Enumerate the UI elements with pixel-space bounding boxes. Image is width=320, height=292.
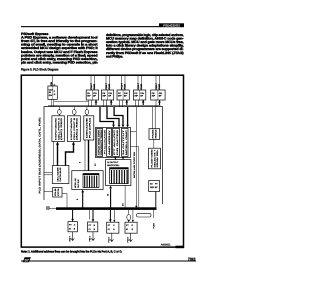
svg-text:MCELLAB PORT EN: MCELLAB PORT EN bbox=[133, 151, 136, 178]
svg-text:PC0-7: PC0-7 bbox=[120, 82, 123, 89]
svg-text:(IMC) REG: (IMC) REG bbox=[60, 117, 63, 140]
box M (global config) bbox=[53, 187, 62, 197]
svg-text:7/93: 7/93 bbox=[188, 257, 197, 262]
svg-text:PD0-7: PD0-7 bbox=[137, 82, 140, 89]
box D (port C pins) bbox=[117, 90, 129, 100]
wires bus to box J bbox=[153, 107, 156, 129]
lines below port boxes with open arrowheads bbox=[71, 232, 132, 242]
CPLD container bbox=[96, 128, 131, 158]
down arrows into CPLD top bbox=[112, 125, 115, 128]
long vertical line from input bus to MCU bus bbox=[135, 107, 137, 209]
wire P bottom to MCU bus bbox=[155, 192, 157, 209]
MCU internal bus (thick) bbox=[56, 207, 157, 210]
svg-text:PIN: PIN bbox=[140, 92, 144, 95]
CPLD AND array (shaded) bbox=[97, 128, 103, 156]
svg-text:PORT: PORT bbox=[153, 222, 156, 228]
box C (port B pins) bbox=[101, 90, 113, 100]
OMC group label bbox=[107, 161, 120, 167]
svg-text:SELECTS +: SELECTS + bbox=[153, 148, 156, 167]
svg-text:DIV: DIV bbox=[49, 94, 53, 97]
svg-text:PC0-7: PC0-7 bbox=[108, 236, 111, 243]
line IMC group bottom to MCU bus (up arrow) bbox=[82, 192, 84, 208]
svg-text:(IMC) REG: (IMC) REG bbox=[76, 117, 79, 140]
tall box T1 (input macrocell A) bbox=[52, 116, 64, 142]
wire M right to bus bbox=[62, 194, 67, 208]
wires from frame top to top boxes bbox=[53, 76, 160, 90]
svg-text:PD0-7: PD0-7 bbox=[126, 236, 129, 243]
svg-text:8 INPUT MACRO: 8 INPUT MACRO bbox=[55, 117, 58, 140]
svg-text:CPLD AND ARR: CPLD AND ARR bbox=[97, 129, 100, 155]
thin line OMC bottom to bus bbox=[124, 186, 126, 209]
svg-text:PAGE: PAGE bbox=[152, 128, 155, 138]
svg-text:PSD4235G2: PSD4235G2 bbox=[163, 23, 180, 27]
top pin labels (rotated tiny) bbox=[50, 82, 161, 90]
svg-text:Figure 5. PLD Block Diagram: Figure 5. PLD Block Diagram bbox=[21, 68, 59, 72]
svg-text:AND ARRAY: AND ARRAY bbox=[108, 129, 111, 155]
svg-text:I/O: I/O bbox=[122, 203, 125, 206]
svg-text:CLK: CLK bbox=[49, 88, 54, 91]
port box B bbox=[88, 222, 98, 232]
CPLD sub-box 4 bbox=[122, 128, 129, 156]
IMC group label bbox=[74, 178, 80, 188]
wire J to K bbox=[153, 139, 155, 148]
stub CPLD right to long vertical bbox=[131, 131, 137, 133]
OMC macrocell striped box bbox=[110, 168, 129, 184]
svg-text:PB0-7: PB0-7 bbox=[89, 235, 92, 241]
svg-text:REG: REG bbox=[154, 129, 157, 139]
right column paragraph bbox=[106, 33, 184, 59]
svg-text:PB0-7: PB0-7 bbox=[105, 82, 108, 89]
wire stub container edge to box M bbox=[44, 191, 53, 193]
svg-text:PE0-7: PE0-7 bbox=[155, 82, 158, 89]
tall box T2 (input macrocell B) bbox=[67, 116, 80, 142]
svg-text:and Philips.: and Philips. bbox=[106, 54, 123, 58]
up arrowhead into T2 bottom bbox=[72, 142, 75, 145]
frame bottom-right corner thick blob bbox=[176, 246, 185, 249]
svg-text:I/O: I/O bbox=[150, 182, 153, 185]
up arrows into top box bottoms bbox=[95, 100, 98, 103]
box K (flash memory selects) bbox=[149, 148, 161, 169]
down arrows CPLD bottom into OMC group bbox=[115, 158, 123, 160]
tiny labels beside below-arrows bbox=[68, 235, 129, 242]
pill below bus right bbox=[137, 214, 152, 217]
svg-text:MCELL OMC: MCELL OMC bbox=[125, 129, 128, 155]
svg-text:GLB: GLB bbox=[54, 187, 57, 196]
svg-text:DATA BUS: DATA BUS bbox=[59, 167, 62, 182]
svg-text:24 OUTPUT: 24 OUTPUT bbox=[122, 128, 125, 155]
left column paragraph bbox=[21, 35, 99, 64]
PLD input bus upper line bbox=[48, 104, 161, 106]
box B (port A pins) bbox=[86, 90, 98, 100]
svg-text:OR GATES: OR GATES bbox=[116, 128, 119, 155]
svg-text:PT ALLOC: PT ALLOC bbox=[113, 129, 116, 155]
thick stair-step buses from input bus into CPLD bbox=[100, 107, 128, 125]
svg-text:Note: 1. Additional address li: Note: 1. Additional address lines can be… bbox=[21, 249, 122, 253]
wires from top boxes down to PLD input bus bbox=[89, 100, 160, 107]
port box D bbox=[125, 222, 137, 233]
svg-text:PIN: PIN bbox=[108, 92, 112, 95]
svg-text:INP: INP bbox=[152, 95, 156, 98]
port box C bbox=[107, 222, 119, 233]
svg-text:16 OUTPUT: 16 OUTPUT bbox=[107, 161, 119, 164]
PLD container box bbox=[44, 107, 163, 204]
svg-text:ST: ST bbox=[24, 258, 29, 262]
svg-text:DECODE: DECODE bbox=[86, 116, 89, 138]
up arrowhead into T1 bottom bbox=[56, 142, 59, 145]
svg-text:MACROCELL: MACROCELL bbox=[107, 164, 120, 167]
svg-text:CFG: CFG bbox=[57, 188, 60, 196]
wire stub container edge to box G bbox=[44, 172, 52, 175]
svg-text:SRAM SEL: SRAM SEL bbox=[156, 148, 159, 168]
IMC macrocell group container bbox=[72, 171, 103, 190]
svg-text:INP: INP bbox=[118, 95, 122, 98]
svg-text:MCELL AB: MCELL AB bbox=[74, 178, 77, 188]
svg-text:PRODUCT TERM: PRODUCT TERM bbox=[100, 129, 103, 155]
IMC macrocell striped box bbox=[83, 174, 99, 188]
svg-text:PIN: PIN bbox=[124, 92, 128, 95]
svg-text:8 INPUT MACRO: 8 INPUT MACRO bbox=[70, 117, 73, 140]
thin line T3 left down to IMC group bbox=[84, 140, 86, 171]
svg-text:PLD INPUT BUS (ADDRESS, DATA,: PLD INPUT BUS (ADDRESS, DATA, CNTL, PGR) bbox=[39, 117, 42, 193]
svg-text:PD: PD bbox=[134, 92, 137, 95]
CPLD sub-box 2 bbox=[107, 128, 112, 156]
svg-text:CELL PORT B: CELL PORT B bbox=[73, 117, 76, 140]
tall box T3 (decode PLD) bbox=[84, 116, 94, 140]
svg-text:pin and click entry, meaning P: pin and click entry, meaning PSD selecti… bbox=[21, 61, 98, 65]
CPLD sub-box 3 bbox=[113, 128, 120, 156]
thick bus T1 up-arrow to box G bbox=[58, 140, 89, 171]
svg-text:AI06601: AI06601 bbox=[161, 243, 171, 246]
box E (port D pins) bbox=[133, 90, 145, 100]
svg-text:PIN: PIN bbox=[159, 92, 163, 95]
svg-text:PIN: PIN bbox=[93, 92, 97, 95]
wire CPLD right to second long line bbox=[131, 147, 139, 209]
ST logo bbox=[23, 257, 31, 262]
MCU bus valve symbol (left end) bbox=[46, 206, 56, 209]
svg-text:INP: INP bbox=[87, 95, 91, 98]
svg-text:CELL PORT A: CELL PORT A bbox=[57, 117, 60, 140]
svg-text:OUT BUF: OUT BUF bbox=[77, 178, 80, 188]
svg-text:INP: INP bbox=[134, 95, 138, 98]
box F (port E pins) bbox=[151, 90, 165, 100]
oval on port D wire bbox=[127, 215, 131, 221]
svg-text:PT ALLOCATOR: PT ALLOCATOR bbox=[104, 129, 107, 154]
box P (I/O port register) bbox=[149, 181, 160, 192]
box J (peripheral I/O mode) bbox=[149, 128, 160, 139]
port box A bbox=[68, 222, 77, 232]
svg-text:MCU ADDR: MCU ADDR bbox=[56, 167, 59, 182]
svg-text:PC: PC bbox=[118, 92, 121, 95]
svg-text:PLD (DPLD): PLD (DPLD) bbox=[88, 117, 91, 138]
footer rule bbox=[21, 261, 196, 262]
OMC macrocell group container bbox=[106, 160, 131, 186]
wire from box A bottom bend bbox=[52, 99, 89, 106]
svg-text:INP: INP bbox=[102, 95, 106, 98]
header rule bbox=[21, 26, 159, 27]
rotated label right of pill bbox=[153, 210, 155, 218]
box G (MCU address / data in) bbox=[52, 166, 69, 184]
svg-text:FLASH MEM: FLASH MEM bbox=[151, 149, 154, 168]
thin line T1 left to box G bbox=[53, 142, 55, 166]
box A (CLKIN input) bbox=[48, 86, 57, 99]
svg-text:PA0-7: PA0-7 bbox=[90, 83, 93, 90]
line OMC group bottom to MCU bus (up arrow, thick) bbox=[110, 189, 112, 209]
diagram frame bbox=[21, 75, 183, 247]
arrows bus to port blocks bbox=[73, 210, 111, 220]
header part-number bar bbox=[159, 23, 184, 27]
true/complement ovals above tall boxes bbox=[58, 110, 89, 115]
svg-text:PA0-7: PA0-7 bbox=[68, 235, 71, 241]
